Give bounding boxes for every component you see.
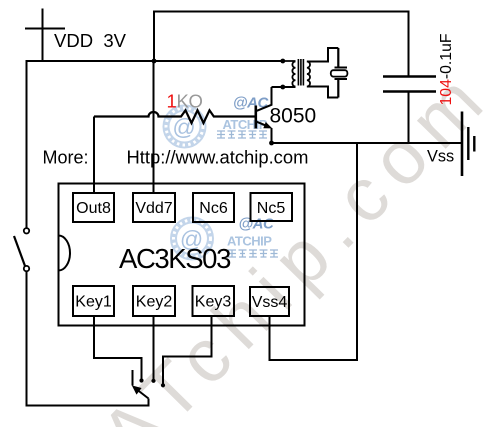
IC notch	[59, 236, 71, 271]
svg-text:Http://www.atchip.com: Http://www.atchip.com	[127, 147, 309, 168]
piezo element BZ1	[337, 48, 339, 98]
IC U1 body	[59, 184, 305, 326]
svg-text:Nc6: Nc6	[199, 200, 228, 217]
rail junction dot B	[280, 59, 285, 64]
watermark stamp upper chinese text	[217, 131, 267, 138]
pin Key3 box	[193, 286, 235, 316]
svg-text:8050: 8050	[270, 105, 317, 128]
primary bottom wire	[272, 86, 296, 88]
VDD rail wire	[27, 60, 284, 62]
switch S1 blade	[14, 236, 25, 266]
secondary top wire	[307, 48, 338, 62]
emitter arrowhead	[263, 122, 272, 128]
Key1 contact dot	[139, 378, 143, 382]
transformer T1 core	[298, 59, 303, 86]
Vss4 riser wire	[270, 143, 358, 360]
pin Nc6 box	[193, 193, 234, 222]
watermark stamp upper @ seal	[166, 108, 203, 145]
pin Vss4 box	[250, 287, 289, 316]
left rail wire	[26, 60, 28, 228]
svg-text:Vss: Vss	[427, 148, 454, 166]
transistor Q1 base bar	[255, 106, 258, 129]
wire junction dot A	[152, 59, 157, 64]
ground Vss symbol	[461, 112, 464, 177]
left rail lower wire	[27, 272, 149, 406]
svg-text:Key2: Key2	[136, 294, 173, 311]
svg-text:@: @	[172, 114, 195, 140]
capacitor C1 bottom lead	[408, 92, 410, 144]
pin Vdd7 box	[133, 193, 175, 222]
Key2 contact dot	[151, 379, 155, 383]
Key2 wire	[153, 316, 155, 380]
ground wire	[272, 142, 463, 144]
key switch arrowhead	[132, 385, 142, 394]
transformer T1 secondary coil	[307, 62, 310, 87]
pin Key1 box	[73, 286, 114, 316]
svg-text:@AC: @AC	[239, 216, 275, 233]
switch S1 bottom circle	[24, 266, 29, 271]
svg-text:Key1: Key1	[75, 294, 112, 311]
svg-text:Key3: Key3	[195, 294, 232, 311]
svg-text:Out8: Out8	[76, 200, 111, 217]
watermark stamp lower chinese text	[228, 250, 278, 257]
watermark stamp lower @ seal	[174, 220, 211, 257]
transistor Q1 collector	[257, 87, 272, 111]
svg-text:VDD 3V: VDD 3V	[54, 30, 127, 51]
resistor R1 wire and zigzag	[94, 110, 256, 123]
Key3 contact dot	[161, 383, 165, 387]
pin Out8 box	[73, 193, 114, 222]
transformer T1 primary coil	[283, 61, 296, 87]
svg-text:Vdd7: Vdd7	[135, 200, 172, 217]
svg-text:ATCHIP: ATCHIP	[227, 234, 272, 249]
emitter junction dot	[269, 141, 274, 146]
svg-text:AC3KS03: AC3KS03	[119, 243, 231, 274]
svg-text:104-0.1uF: 104-0.1uF	[438, 33, 455, 105]
Out8 drop wire	[93, 117, 95, 193]
switch S1 top circle	[24, 228, 29, 233]
svg-text:Vss4: Vss4	[252, 294, 288, 311]
Key3 wire	[163, 316, 212, 385]
secondary bottom wire	[307, 87, 338, 98]
svg-text:1KO: 1KO	[167, 91, 203, 112]
pin Key2 box	[133, 286, 175, 316]
key switch contact	[132, 370, 134, 386]
collector junction dot	[280, 85, 285, 90]
svg-text:Nc5: Nc5	[257, 200, 286, 217]
pin Nc5 box	[251, 193, 293, 221]
Vdd7 drop wire	[153, 61, 155, 193]
top wire	[154, 12, 409, 77]
VDD power symbol	[25, 9, 65, 62]
key switch blade	[138, 390, 149, 399]
transistor Q1 emitter	[257, 122, 272, 143]
capacitor C1 plates	[383, 77, 436, 92]
svg-text:More:: More:	[43, 148, 89, 168]
svg-text:@AC: @AC	[233, 95, 269, 112]
Key1 wire	[94, 316, 142, 380]
